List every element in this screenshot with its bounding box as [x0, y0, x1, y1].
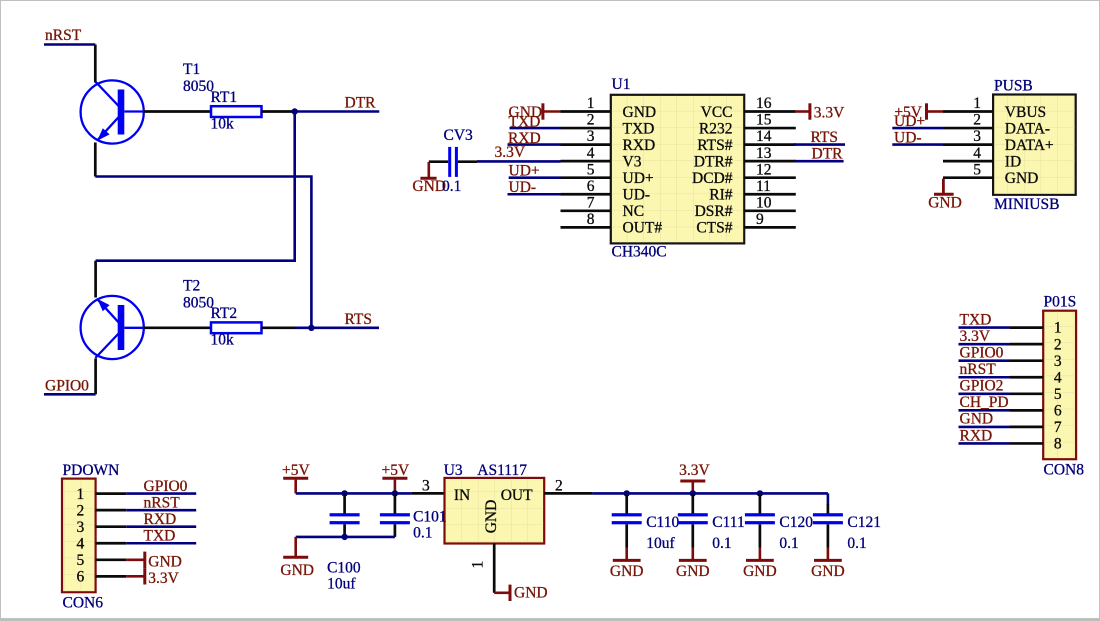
- svg-text:UD-: UD-: [623, 187, 651, 204]
- svg-text:UD+: UD+: [623, 170, 654, 187]
- pin 2 U3 OUT: [544, 478, 592, 495]
- svg-text:DCD#: DCD#: [692, 170, 733, 187]
- svg-text:CV3: CV3: [444, 127, 474, 144]
- pin 4 U1 V3: [561, 145, 642, 171]
- junction C100 bottom: [341, 534, 347, 540]
- power port +5V (left): [282, 462, 310, 494]
- connector P01S body: [1043, 311, 1076, 460]
- svg-text:C100: C100: [327, 560, 361, 577]
- wire TXD at P01S pin 1: [959, 326, 1011, 329]
- pin 1 P01S: [1010, 320, 1062, 337]
- svg-text:CON6: CON6: [63, 595, 104, 612]
- svg-text:OUT#: OUT#: [623, 220, 663, 237]
- wire UD- at U1 pin6: [508, 193, 561, 196]
- svg-text:C101: C101: [413, 509, 447, 526]
- svg-text:2: 2: [1054, 336, 1062, 353]
- wire T1 emitter pin: [94, 143, 97, 177]
- svg-text:IN: IN: [454, 487, 470, 504]
- pin 2 PUSB DATA-: [943, 112, 1050, 138]
- svg-text:GND: GND: [928, 195, 962, 212]
- svg-text:12: 12: [756, 161, 772, 178]
- capacitor C121: [827, 504, 830, 514]
- pin 8 P01S: [1010, 436, 1062, 453]
- svg-text:0.1: 0.1: [779, 535, 798, 552]
- capacitor C101: [394, 493, 397, 513]
- power port GND below C110: [610, 548, 644, 581]
- svg-text:4: 4: [1054, 369, 1062, 386]
- power port GND below C121: [811, 548, 845, 581]
- wire T2 collector pin: [94, 359, 97, 395]
- svg-text:UD+: UD+: [509, 163, 540, 180]
- svg-text:C120: C120: [779, 514, 813, 531]
- wire +5V rail to U3 IN: [296, 492, 412, 495]
- wire nRST at P01S pin 4: [959, 376, 1011, 379]
- svg-text:3: 3: [422, 478, 430, 495]
- svg-text:1: 1: [469, 561, 486, 569]
- power port +5V at PUSB pin1: [894, 103, 943, 121]
- pin 7 U1 NC: [561, 194, 645, 220]
- wire GPIO2 at P01S pin 5: [959, 392, 1011, 395]
- svg-text:NC: NC: [623, 203, 645, 220]
- svg-text:C111: C111: [712, 514, 744, 531]
- svg-text:10uf: 10uf: [646, 535, 675, 552]
- svg-text:3: 3: [973, 128, 981, 145]
- wire UD+ at PUSB pin2: [892, 127, 943, 130]
- svg-text:GND: GND: [960, 411, 994, 428]
- svg-text:GND: GND: [623, 104, 657, 121]
- pin 15 U1 R232: [699, 112, 796, 138]
- pin 6 U1 UD-: [561, 178, 651, 204]
- wire RXD at U1 pin3: [508, 143, 561, 146]
- connector PDOWN body: [62, 479, 96, 593]
- svg-text:TXD: TXD: [144, 527, 176, 544]
- svg-text:OUT: OUT: [501, 487, 533, 504]
- svg-text:GND: GND: [610, 563, 644, 580]
- IC U1 CH340C body: [611, 95, 744, 244]
- svg-text:9: 9: [756, 211, 764, 228]
- svg-text:U3: U3: [444, 462, 463, 479]
- svg-text:0.1: 0.1: [413, 525, 432, 542]
- capacitor C100: [343, 493, 346, 513]
- pin 10 U1 DSR#: [695, 194, 796, 220]
- svg-text:5: 5: [1054, 386, 1062, 403]
- power port 3.3V at U1 pin16: [796, 103, 845, 121]
- power port GND at CV3: [412, 162, 446, 195]
- svg-text:TXD: TXD: [960, 311, 992, 328]
- svg-text:GND: GND: [280, 562, 314, 579]
- pin 4 P01S: [1010, 369, 1062, 386]
- wire T2 emitter pin: [94, 261, 97, 298]
- junction C110 tap: [624, 490, 630, 496]
- svg-text:4: 4: [973, 145, 981, 162]
- svg-text:3.3V: 3.3V: [960, 328, 991, 345]
- wire GPIO0: [44, 393, 96, 396]
- pin 4 PDOWN: [77, 535, 127, 552]
- wire CV3 to U1 pin4: [477, 160, 561, 163]
- svg-text:ID: ID: [1005, 153, 1021, 170]
- svg-text:3: 3: [587, 128, 595, 145]
- svg-text:RXD: RXD: [960, 427, 993, 444]
- power port 3.3V at PDOWN pin6: [126, 568, 179, 587]
- svg-text:GND: GND: [483, 500, 500, 534]
- wire T1 emitter to RTS column: [95, 177, 311, 328]
- svg-text:AS1117: AS1117: [477, 462, 527, 479]
- svg-text:MINIUSB: MINIUSB: [994, 196, 1059, 213]
- pin 3 P01S: [1010, 353, 1062, 370]
- pin 3 U3 IN: [412, 478, 445, 495]
- svg-text:PUSB: PUSB: [994, 77, 1033, 94]
- pin 6 PDOWN: [77, 569, 127, 586]
- transistor T2: [81, 296, 144, 359]
- wire DTR: [295, 110, 380, 113]
- svg-text:8: 8: [1054, 436, 1062, 453]
- wire RT2 to RTS junction: [262, 326, 297, 329]
- svg-text:RT1: RT1: [211, 89, 238, 106]
- pin 13 U1 DTR#: [694, 145, 796, 171]
- svg-text:7: 7: [587, 194, 595, 211]
- capacitor C120: [759, 493, 762, 513]
- junction C120 tap: [757, 490, 763, 496]
- svg-text:RXD: RXD: [623, 137, 656, 154]
- svg-text:1: 1: [973, 95, 981, 112]
- svg-text:11: 11: [756, 178, 771, 195]
- svg-text:CON8: CON8: [1044, 462, 1085, 479]
- svg-text:GPIO0: GPIO0: [960, 345, 1004, 362]
- svg-text:2: 2: [973, 112, 981, 129]
- svg-text:GND: GND: [1005, 170, 1039, 187]
- svg-text:U1: U1: [612, 76, 631, 93]
- svg-text:3.3V: 3.3V: [148, 570, 179, 587]
- wire UD+ at U1 pin5: [509, 176, 561, 179]
- svg-text:DTR#: DTR#: [694, 153, 733, 170]
- connector PUSB body: [993, 95, 1076, 195]
- svg-text:C110: C110: [646, 514, 679, 531]
- svg-text:1: 1: [77, 486, 85, 503]
- svg-text:VCC: VCC: [701, 104, 733, 121]
- svg-text:R232: R232: [699, 120, 733, 137]
- svg-text:GPIO0: GPIO0: [45, 377, 89, 394]
- svg-text:VBUS: VBUS: [1005, 104, 1046, 121]
- svg-text:T2: T2: [183, 278, 200, 295]
- pin 14 U1 RTS#: [697, 128, 796, 154]
- svg-text:+5V: +5V: [282, 462, 310, 479]
- junction C111 tap: [690, 490, 696, 496]
- svg-text:DTR: DTR: [812, 146, 844, 163]
- power port GND at U3 pin1: [494, 585, 547, 602]
- svg-text:nRST: nRST: [45, 27, 82, 44]
- svg-text:UD-: UD-: [894, 130, 922, 147]
- svg-text:CH_PD: CH_PD: [960, 394, 1009, 411]
- svg-text:7: 7: [1054, 419, 1062, 436]
- power port GND below C111: [676, 548, 710, 581]
- svg-text:10: 10: [756, 194, 772, 211]
- power port GND (bottom left): [280, 537, 314, 579]
- svg-text:4: 4: [587, 145, 595, 162]
- svg-text:2: 2: [555, 478, 563, 495]
- svg-text:5: 5: [77, 552, 85, 569]
- transistor T1: [81, 80, 144, 143]
- pin 1 PDOWN: [77, 486, 127, 503]
- svg-text:P01S: P01S: [1044, 294, 1077, 311]
- wire bottom rail C100-C101: [296, 536, 395, 539]
- junction DTR node: [292, 108, 298, 114]
- svg-text:CH340C: CH340C: [612, 244, 667, 261]
- junction C100 top: [341, 490, 347, 496]
- pin 12 U1 DCD#: [692, 161, 796, 187]
- power port +5V (at C101): [382, 462, 410, 494]
- wire GPIO0 at P01S pin 3: [959, 359, 1011, 362]
- svg-text:13: 13: [756, 145, 772, 162]
- svg-text:T1: T1: [183, 61, 200, 78]
- wire DTR junction down: [96, 112, 295, 261]
- pin 2 U1 TXD: [561, 112, 655, 138]
- svg-text:GND: GND: [676, 563, 710, 580]
- svg-text:2: 2: [77, 502, 85, 519]
- svg-text:+5V: +5V: [382, 462, 410, 479]
- pin 5 PUSB GND: [943, 161, 1038, 187]
- svg-text:10k: 10k: [211, 115, 235, 132]
- svg-text:UD+: UD+: [894, 113, 925, 130]
- pin 11 U1 RI#: [709, 178, 796, 204]
- wire GPIO0 at PDOWN pin 1: [126, 492, 196, 495]
- svg-text:GPIO2: GPIO2: [960, 378, 1004, 395]
- pin 5 PDOWN: [77, 552, 127, 569]
- svg-text:DSR#: DSR#: [695, 203, 733, 220]
- svg-text:RTS: RTS: [811, 129, 839, 146]
- junction C101 top: [392, 490, 398, 496]
- svg-text:6: 6: [587, 178, 595, 195]
- svg-text:0.1: 0.1: [847, 535, 866, 552]
- svg-text:DATA+: DATA+: [1005, 137, 1054, 154]
- svg-text:4: 4: [77, 535, 85, 552]
- svg-text:GND: GND: [743, 563, 777, 580]
- pin 3 PDOWN: [77, 519, 127, 536]
- svg-text:UD-: UD-: [509, 179, 537, 196]
- svg-text:V3: V3: [623, 153, 642, 170]
- svg-text:RT2: RT2: [211, 305, 238, 322]
- wire RTS at U1 pin14: [794, 143, 845, 146]
- svg-text:RXD: RXD: [508, 130, 541, 147]
- pin 3 U1 RXD: [561, 128, 656, 154]
- wire RXD at PDOWN pin 3: [126, 525, 196, 528]
- svg-text:3: 3: [77, 519, 85, 536]
- wire RT1 to DTR junction: [262, 110, 295, 113]
- svg-text:GND: GND: [412, 178, 446, 195]
- wire nRST horizontal: [44, 43, 95, 46]
- pin 4 PUSB ID: [943, 145, 1021, 171]
- svg-text:1: 1: [587, 95, 595, 112]
- pin 6 P01S: [1010, 402, 1062, 419]
- svg-text:14: 14: [756, 128, 772, 145]
- svg-text:3: 3: [1054, 353, 1062, 370]
- wire TXD at U1 pin2: [510, 127, 561, 130]
- pin 16 U1 VCC: [701, 95, 796, 121]
- svg-text:RTS#: RTS#: [697, 137, 732, 154]
- power port GND at PUSB pin5: [928, 179, 962, 212]
- svg-text:6: 6: [77, 569, 85, 586]
- pin 8 U1 OUT#: [561, 211, 663, 237]
- svg-text:1: 1: [1054, 320, 1062, 337]
- pin 5 U1 UD+: [561, 161, 654, 187]
- svg-text:GND: GND: [514, 585, 548, 602]
- wire 3.3V at P01S pin 2: [959, 343, 1011, 346]
- svg-text:RTS: RTS: [345, 311, 373, 328]
- svg-text:GND: GND: [148, 554, 182, 571]
- svg-text:8: 8: [587, 211, 595, 228]
- svg-text:TXD: TXD: [623, 120, 655, 137]
- svg-text:PDOWN: PDOWN: [63, 462, 120, 479]
- capacitor C111: [691, 493, 694, 513]
- svg-text:10uf: 10uf: [327, 576, 356, 593]
- capacitor C110: [625, 493, 628, 513]
- svg-text:2: 2: [587, 112, 595, 129]
- pin 1 PUSB VBUS: [943, 95, 1046, 121]
- power port GND at PDOWN pin5: [126, 552, 182, 571]
- wire 3.3V output rail: [592, 492, 828, 495]
- svg-text:nRST: nRST: [960, 361, 997, 378]
- capacitor CV3: [429, 147, 477, 177]
- junction RTS node: [308, 325, 314, 331]
- pin 9 U1 CTS#: [696, 211, 795, 237]
- wire nRST at PDOWN pin 2: [126, 509, 196, 512]
- pin 7 P01S: [1010, 419, 1062, 436]
- power port GND at U1 pin1: [509, 103, 561, 121]
- resistor RT1: [211, 106, 262, 117]
- wire RXD at P01S pin 8: [959, 442, 1011, 445]
- wire RTS: [296, 326, 379, 329]
- svg-text:DATA-: DATA-: [1005, 120, 1050, 137]
- svg-text:RI#: RI#: [709, 187, 733, 204]
- svg-text:TXD: TXD: [509, 113, 541, 130]
- svg-text:5: 5: [587, 161, 595, 178]
- pin 2 PDOWN: [77, 502, 127, 519]
- pin 1 U1 GND: [561, 95, 657, 121]
- svg-text:0.1: 0.1: [712, 535, 731, 552]
- svg-text:GPIO0: GPIO0: [144, 478, 188, 495]
- pin 1 U3 GND: [469, 544, 494, 593]
- svg-text:15: 15: [756, 112, 772, 129]
- wire TXD at PDOWN pin 4: [126, 542, 196, 545]
- power port 3.3V (output rail): [679, 462, 710, 494]
- svg-text:6: 6: [1054, 402, 1062, 419]
- resistor RT2: [211, 322, 262, 333]
- svg-text:C121: C121: [847, 514, 881, 531]
- svg-text:nRST: nRST: [144, 494, 181, 511]
- wire corner down to C121: [827, 493, 830, 505]
- wire GND at P01S pin 7: [959, 426, 1011, 429]
- svg-text:10k: 10k: [211, 332, 235, 349]
- svg-text:3.3V: 3.3V: [814, 105, 845, 122]
- regulator U3 AS1117 body: [445, 478, 545, 544]
- svg-text:5: 5: [973, 161, 981, 178]
- pin 3 PUSB DATA+: [943, 128, 1054, 154]
- svg-text:RXD: RXD: [144, 511, 177, 528]
- wire T1 base to RT1: [144, 110, 211, 113]
- svg-text:16: 16: [756, 95, 772, 112]
- wire T2 base to RT2: [144, 326, 211, 329]
- power port GND below C120: [743, 548, 777, 581]
- svg-text:3.3V: 3.3V: [679, 462, 710, 479]
- pin 5 P01S: [1010, 386, 1062, 403]
- wire DTR at U1 pin13: [795, 160, 844, 163]
- wire CH_PD at P01S pin 6: [959, 409, 1011, 412]
- svg-text:DTR: DTR: [345, 95, 377, 112]
- wire UD- at PUSB pin3: [892, 143, 943, 146]
- svg-text:0.1: 0.1: [442, 178, 461, 195]
- wire T1 collector vertical: [94, 45, 97, 83]
- svg-text:GND: GND: [811, 563, 845, 580]
- svg-text:CTS#: CTS#: [696, 220, 732, 237]
- pin 2 P01S: [1010, 336, 1062, 353]
